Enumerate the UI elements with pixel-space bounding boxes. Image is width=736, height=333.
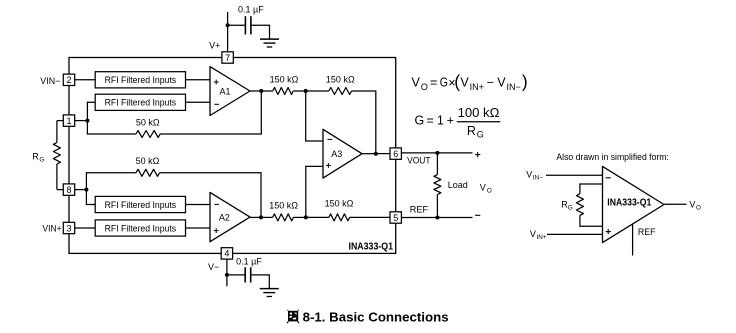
- svg-text:100 kΩ: 100 kΩ: [458, 106, 500, 120]
- wire pin 6 to + terminal: [401, 152, 472, 154]
- equation VO = G x (VIN+ - VIN-): [412, 72, 528, 92]
- input label VIN- (simplified): [526, 170, 543, 182]
- node pin 8 feedback junction: [84, 188, 88, 192]
- node A3 output junction: [374, 152, 378, 156]
- svg-text:G: G: [440, 76, 448, 90]
- resistor RG (simplified): [576, 194, 583, 216]
- node pin 1 feedback junction: [85, 119, 89, 123]
- svg-text:G: G: [415, 114, 425, 128]
- pin 1 (RG): [63, 115, 74, 126]
- pin 7 (V+): [222, 52, 233, 63]
- svg-text:INA333-Q1: INA333-Q1: [349, 242, 394, 253]
- svg-text:Also drawn in simplified form:: Also drawn in simplified form:: [556, 152, 669, 162]
- wire RG top lead: [56, 121, 58, 143]
- value label 0.1 uF (bottom): [236, 256, 262, 266]
- svg-text:INA333-Q1: INA333-Q1: [607, 198, 651, 209]
- wire junction down to RFI block (A2 -): [86, 190, 95, 205]
- label Load: [448, 180, 468, 190]
- resistor 150 kOhm (ref to pin 5): [329, 214, 350, 221]
- capacitor 0.1 uF (V+ bypass): [245, 16, 251, 34]
- svg-text:1: 1: [66, 116, 71, 126]
- svg-text:RFI Filtered Inputs: RFI Filtered Inputs: [105, 98, 177, 108]
- svg-text:7: 7: [225, 53, 230, 63]
- label RG (simplified): [561, 200, 573, 212]
- wire V- supply rail from pin 4: [226, 259, 228, 286]
- pin 6 (VOUT): [390, 148, 401, 159]
- block RFI Filtered Inputs (A2 -): [95, 196, 185, 212]
- svg-text:0.1 µF: 0.1 µF: [238, 4, 264, 14]
- svg-text:+: +: [447, 114, 454, 128]
- amplifier symbol INA333-Q1 (simplified): [603, 166, 665, 242]
- wire RG bottom stub (simplified): [580, 215, 603, 226]
- wire sum node down to A3 - input: [306, 91, 323, 141]
- wire ref node up to A3 + input: [306, 166, 323, 217]
- part label INA333-Q1 (inside box): [349, 242, 394, 253]
- svg-text:2: 2: [66, 75, 71, 85]
- value label 150 kOhm (3): [269, 200, 298, 210]
- svg-text:Load: Load: [448, 180, 468, 190]
- pin 3 (VIN+): [63, 222, 74, 233]
- capacitor 0.1 uF (V- bypass): [245, 267, 251, 282]
- svg-text:): ): [522, 72, 528, 92]
- node A1 output junction: [259, 89, 263, 93]
- svg-text:RFI Filtered Inputs: RFI Filtered Inputs: [105, 200, 177, 210]
- simplified + input mark: [606, 229, 611, 234]
- IC body outline INA333-Q1: [69, 58, 396, 254]
- svg-text:RFI Filtered Inputs: RFI Filtered Inputs: [105, 223, 177, 233]
- wire 150k feedback to A3 output: [352, 91, 376, 154]
- svg-text:1: 1: [437, 114, 444, 128]
- label A1: [219, 86, 230, 96]
- pin 2 (VIN-): [63, 74, 74, 85]
- A2 - input mark: [214, 203, 219, 205]
- svg-text:REF: REF: [410, 205, 429, 215]
- svg-text:V: V: [480, 182, 486, 192]
- value label 50 kOhm (lower): [136, 156, 160, 166]
- svg-text:150 kΩ: 150 kΩ: [326, 75, 355, 85]
- caption text 8-1. Basic Connections: [303, 309, 449, 324]
- value label 150 kOhm (4): [325, 199, 354, 209]
- wire 150k to pin 5: [350, 216, 390, 218]
- svg-text:8-1. Basic Connections: 8-1. Basic Connections: [303, 309, 449, 324]
- op-amp A1: [210, 67, 250, 116]
- resistor RG (gain set): [53, 143, 60, 165]
- svg-text:R: R: [32, 152, 39, 162]
- svg-text:O: O: [696, 204, 701, 211]
- input label VIN-: [40, 76, 60, 86]
- wire RFI block to A2 - input: [186, 204, 211, 206]
- svg-text:A3: A3: [331, 149, 342, 159]
- net label VOUT: [407, 155, 431, 165]
- wire A3 node to pin 6: [376, 153, 390, 155]
- svg-text:=: =: [430, 76, 437, 90]
- caption figure character: [287, 310, 299, 323]
- output + terminal mark: [475, 152, 480, 157]
- svg-text:VIN+: VIN+: [43, 224, 62, 234]
- svg-text:O: O: [487, 187, 492, 194]
- wire RFI block to A1 - input: [186, 101, 211, 103]
- ground symbol (top): [260, 39, 279, 47]
- block RFI Filtered Inputs (A2 +): [95, 220, 185, 236]
- svg-text:G: G: [477, 129, 484, 139]
- resistor 150 kOhm (A3 feedback): [329, 88, 352, 95]
- svg-text:V: V: [526, 170, 532, 180]
- label A2: [219, 213, 230, 223]
- wire capacitor to ground: [251, 25, 270, 39]
- resistor 150 kOhm (A2 to ref node): [273, 214, 294, 221]
- simplified - input mark: [606, 177, 611, 179]
- wire VIN+ to symbol: [547, 233, 603, 235]
- wire ref node to R 150k ref: [306, 216, 329, 218]
- svg-text:VOUT: VOUT: [407, 155, 431, 165]
- output - terminal mark: [475, 214, 480, 216]
- svg-text:V: V: [460, 76, 469, 90]
- pin 8 (RG): [63, 184, 74, 195]
- svg-text:G: G: [39, 156, 44, 163]
- svg-text:150 kΩ: 150 kΩ: [269, 200, 298, 210]
- svg-text:5: 5: [393, 213, 398, 223]
- net label V-: [208, 262, 219, 272]
- wire to upper sum node: [293, 90, 306, 92]
- wire capacitor to ground (bottom): [251, 275, 270, 289]
- node lower ref junction: [304, 215, 308, 219]
- value label 50 kOhm (upper): [136, 118, 160, 128]
- svg-text:(: (: [454, 72, 460, 92]
- wire A2 output: [250, 216, 261, 218]
- svg-text:REF: REF: [638, 227, 656, 238]
- node load bottom junction: [435, 216, 439, 220]
- svg-text:O: O: [421, 82, 428, 92]
- svg-text:50 kΩ: 50 kΩ: [136, 156, 160, 166]
- wire junction to capacitor C2: [227, 274, 245, 276]
- A2 + input mark: [214, 228, 219, 233]
- svg-text:V: V: [497, 76, 506, 90]
- wire VO output (simplified): [664, 203, 687, 205]
- svg-text:IN−: IN−: [533, 174, 543, 181]
- wire load bottom lead: [436, 195, 438, 218]
- svg-text:150 kΩ: 150 kΩ: [325, 199, 354, 209]
- svg-text:G: G: [568, 204, 573, 211]
- wire load top lead: [436, 153, 438, 175]
- net label V+: [209, 40, 220, 50]
- wire A2 node to R 150k: [261, 216, 273, 218]
- wire RFI block to A2 + input: [186, 227, 211, 229]
- svg-text:A1: A1: [219, 86, 230, 96]
- ground symbol (bottom): [260, 289, 279, 297]
- wire VIN- to symbol: [546, 174, 603, 176]
- svg-text:V: V: [530, 229, 536, 239]
- svg-text:A2: A2: [219, 213, 230, 223]
- svg-text:V: V: [412, 76, 421, 90]
- svg-text:3: 3: [66, 223, 71, 233]
- pin 4 (V-): [221, 248, 232, 259]
- wire REF (simplified): [632, 224, 634, 255]
- wire pin 1 to RG: [57, 120, 63, 122]
- svg-text:VIN−: VIN−: [40, 76, 60, 86]
- output label VO (simplified): [689, 200, 701, 212]
- net label REF (simplified): [638, 227, 656, 238]
- value label 150 kOhm (1): [270, 75, 299, 85]
- op-amp A3: [323, 129, 362, 178]
- pin 5 (REF): [390, 212, 401, 223]
- svg-text:−: −: [487, 76, 494, 90]
- wire RG to pin 8: [57, 189, 63, 191]
- wire sum node to R 150k feedback: [306, 90, 329, 92]
- node upper sum junction: [304, 89, 308, 93]
- wire pin 2 to RFI block: [75, 79, 96, 81]
- svg-text:V: V: [689, 200, 695, 210]
- A1 + input mark: [214, 80, 219, 85]
- wire RG top stub (simplified): [580, 184, 603, 194]
- svg-text:RFI Filtered Inputs: RFI Filtered Inputs: [105, 75, 177, 85]
- wire A1 node to R 150k: [261, 90, 273, 92]
- wire 50k to A2 output node: [160, 173, 262, 218]
- wire A3 output: [362, 153, 376, 155]
- node load top junction: [435, 151, 439, 155]
- svg-text:IN+: IN+: [470, 82, 484, 92]
- input label VIN+ (simplified): [530, 229, 547, 241]
- wire A1 output: [250, 90, 261, 92]
- value label 150 kOhm (2): [326, 75, 355, 85]
- node A2 output junction: [259, 215, 263, 219]
- wire pin 8 to junction: [75, 189, 87, 191]
- wire junction up to RFI block (A1 -): [87, 102, 95, 120]
- value label 0.1 uF (top): [238, 4, 264, 14]
- wire V+ supply rail into pin 7: [227, 12, 229, 52]
- svg-text:IN−: IN−: [507, 82, 521, 92]
- svg-text:V+: V+: [209, 40, 220, 50]
- label RG: [32, 152, 44, 164]
- wire pin 3 to RFI block: [75, 227, 96, 229]
- resistor 50 kOhm (A1 feedback): [136, 131, 160, 138]
- svg-text:6: 6: [393, 149, 398, 159]
- wire junction to capacitor C1: [228, 24, 246, 26]
- wire to lower ref node: [293, 216, 305, 218]
- resistor Load: [434, 175, 441, 195]
- svg-text:0.1 µF: 0.1 µF: [236, 256, 262, 266]
- block RFI Filtered Inputs (A1 -): [95, 94, 185, 110]
- A3 - input mark: [327, 138, 332, 140]
- wire junction down to 50k feedback: [87, 121, 136, 134]
- wire RFI block to A1 + input: [186, 79, 211, 81]
- node V- / C2 junction: [225, 273, 229, 277]
- wire 50k to A1 output node: [160, 91, 261, 134]
- svg-text:50 kΩ: 50 kΩ: [136, 118, 160, 128]
- net label REF: [410, 205, 429, 215]
- A3 + input mark: [326, 163, 331, 168]
- wire pin 1 to junction: [75, 120, 88, 122]
- svg-text:R: R: [467, 124, 476, 138]
- svg-text:150 kΩ: 150 kΩ: [270, 75, 299, 85]
- wire junction up to 50k feedback: [86, 173, 136, 190]
- wire RG bottom lead: [56, 164, 58, 190]
- svg-text:8: 8: [66, 185, 71, 195]
- part label INA333-Q1 (simplified): [607, 198, 651, 209]
- label VO (across load): [480, 182, 492, 194]
- svg-text:=: =: [427, 114, 434, 128]
- resistor 50 kOhm (A2 feedback): [136, 169, 160, 176]
- svg-text:4: 4: [224, 249, 229, 259]
- caption: Also drawn in simplified form: [556, 152, 669, 162]
- op-amp A2: [210, 192, 250, 241]
- resistor 150 kOhm (A1 to sum node): [273, 88, 293, 95]
- label A3: [331, 149, 342, 159]
- equation G = 1 + 100k/RG: [415, 106, 501, 139]
- wire pin 5 to - terminal: [401, 217, 472, 219]
- A1 - input mark: [214, 103, 219, 105]
- svg-text:V−: V−: [208, 262, 219, 272]
- svg-text:IN+: IN+: [537, 234, 547, 241]
- node V+ / C1 junction: [226, 23, 230, 27]
- input label VIN+: [43, 224, 62, 234]
- block RFI Filtered Inputs (A1 +): [95, 72, 185, 88]
